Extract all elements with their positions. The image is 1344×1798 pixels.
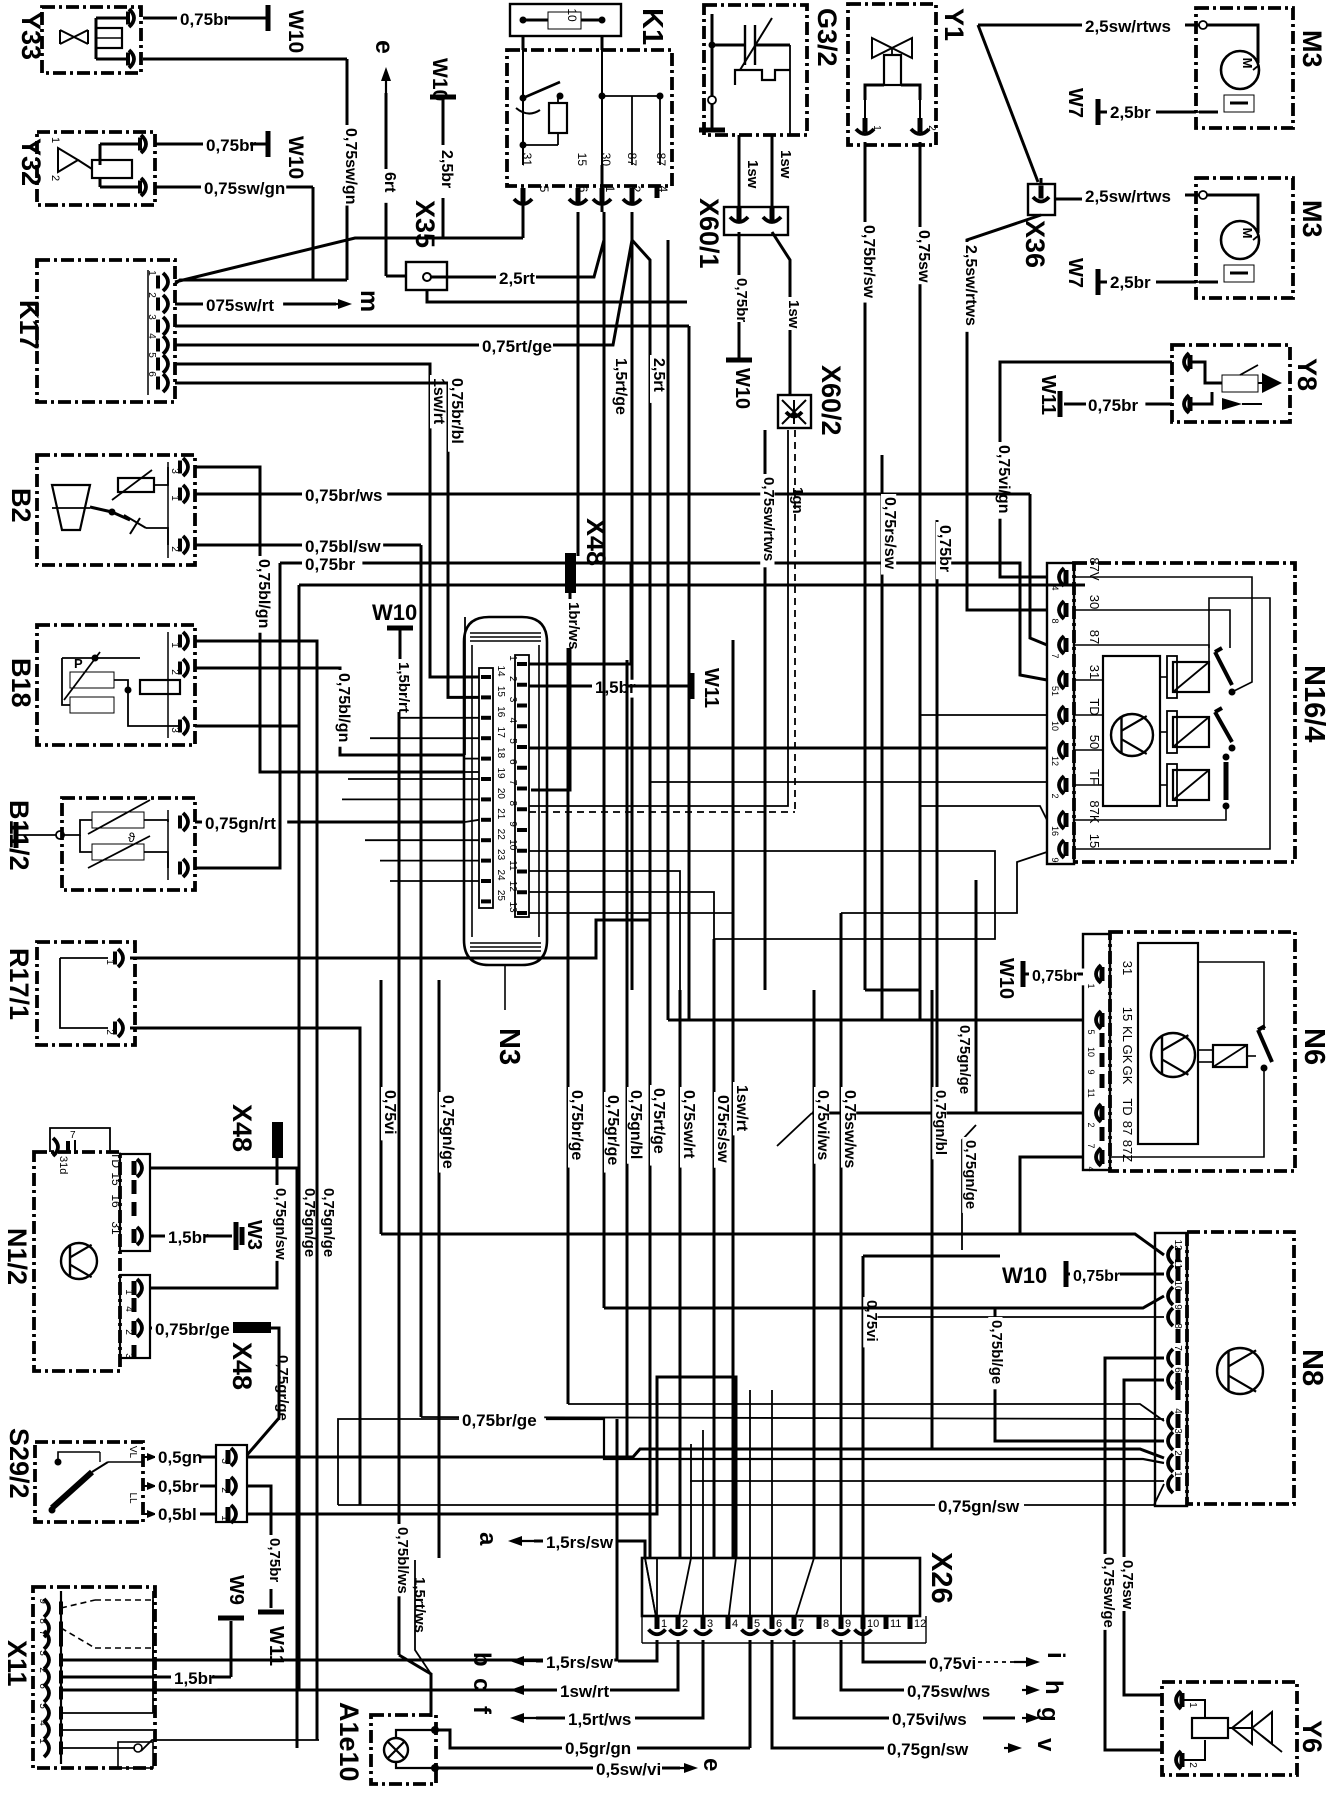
svg-text:1: 1 <box>169 642 180 648</box>
svg-text:0,75br: 0,75br <box>206 136 256 155</box>
svg-text:50: 50 <box>1087 735 1102 749</box>
svg-text:3: 3 <box>37 1650 48 1656</box>
svg-text:0,75vi/ws: 0,75vi/ws <box>814 1090 831 1160</box>
svg-text:0,75vi: 0,75vi <box>929 1654 976 1673</box>
svg-text:KL: KL <box>1120 1026 1135 1042</box>
svg-text:R17/1: R17/1 <box>4 948 34 1020</box>
svg-text:0,75gr/ge: 0,75gr/ge <box>274 1355 291 1421</box>
svg-text:S29/2: S29/2 <box>4 1428 34 1499</box>
svg-text:15: 15 <box>1087 834 1102 848</box>
svg-text:2: 2 <box>926 125 937 131</box>
svg-text:5: 5 <box>507 738 518 744</box>
svg-text:1: 1 <box>661 1618 667 1630</box>
svg-text:2: 2 <box>104 1029 115 1035</box>
svg-text:ϑ: ϑ <box>128 830 136 845</box>
svg-text:16: 16 <box>495 706 506 718</box>
svg-text:87: 87 <box>1087 630 1102 644</box>
svg-text:51: 51 <box>1050 686 1060 696</box>
svg-text:W7: W7 <box>1064 258 1086 288</box>
svg-text:0,75br/sw: 0,75br/sw <box>860 225 877 298</box>
svg-text:5: 5 <box>754 1618 760 1630</box>
svg-text:1,5br: 1,5br <box>168 1228 209 1247</box>
svg-text:1: 1 <box>1172 1471 1183 1477</box>
svg-text:0,75gr/ge: 0,75gr/ge <box>604 1095 621 1165</box>
svg-text:g: g <box>1036 1707 1063 1722</box>
svg-text:0,75gn/ge: 0,75gn/ge <box>962 1140 979 1209</box>
svg-text:5: 5 <box>37 1703 48 1709</box>
svg-text:B2: B2 <box>6 488 36 523</box>
svg-text:0,75sw/ge: 0,75sw/ge <box>1100 1557 1117 1628</box>
svg-text:19: 19 <box>495 767 506 779</box>
svg-text:21: 21 <box>495 808 506 820</box>
svg-text:10: 10 <box>565 8 579 22</box>
svg-text:7: 7 <box>1050 653 1060 658</box>
svg-text:1,5rt/ws: 1,5rt/ws <box>411 1577 428 1633</box>
svg-text:2: 2 <box>1172 1450 1183 1456</box>
svg-text:0,75gn/ge: 0,75gn/ge <box>320 1188 337 1257</box>
svg-text:1: 1 <box>104 959 115 965</box>
svg-text:2,5sw/rtws: 2,5sw/rtws <box>962 245 979 326</box>
svg-text:1: 1 <box>871 125 882 131</box>
svg-text:1sw: 1sw <box>744 160 761 189</box>
svg-text:10: 10 <box>867 1618 879 1630</box>
svg-text:X60/2: X60/2 <box>816 365 846 436</box>
svg-text:P: P <box>74 656 83 671</box>
svg-text:10: 10 <box>507 839 518 851</box>
svg-text:2: 2 <box>49 175 61 181</box>
svg-text:e: e <box>370 40 398 54</box>
svg-text:2: 2 <box>507 676 518 682</box>
svg-text:0,75br/ws: 0,75br/ws <box>305 486 383 505</box>
svg-text:87Z: 87Z <box>1120 1140 1135 1162</box>
svg-text:3: 3 <box>123 1353 134 1359</box>
svg-text:b: b <box>468 1652 495 1667</box>
svg-text:1: 1 <box>37 1738 48 1744</box>
svg-text:W11: W11 <box>1037 375 1059 415</box>
svg-text:0,5sw/vi: 0,5sw/vi <box>596 1760 661 1779</box>
svg-text:2: 2 <box>37 1667 48 1673</box>
svg-text:0,75bl/ws: 0,75bl/ws <box>394 1527 411 1594</box>
svg-text:3: 3 <box>169 468 180 474</box>
svg-text:h: h <box>1040 1680 1067 1695</box>
svg-text:1: 1 <box>49 137 61 143</box>
svg-text:6: 6 <box>1172 1367 1183 1373</box>
svg-text:M3: M3 <box>1297 30 1327 68</box>
svg-text:20: 20 <box>495 788 506 800</box>
svg-text:1: 1 <box>123 1289 134 1295</box>
svg-text:10: 10 <box>1086 1047 1096 1057</box>
svg-text:12: 12 <box>914 1618 926 1630</box>
svg-text:K1: K1 <box>636 8 668 45</box>
svg-text:1gn: 1gn <box>789 487 806 514</box>
svg-text:0,75br: 0,75br <box>180 10 230 29</box>
svg-text:X48: X48 <box>227 1104 257 1152</box>
svg-text:VL: VL <box>127 1446 138 1459</box>
svg-text:31: 31 <box>109 1221 123 1235</box>
svg-text:m: m <box>355 290 383 312</box>
svg-text:X48: X48 <box>227 1342 257 1390</box>
svg-text:7: 7 <box>798 1618 804 1630</box>
svg-text:17: 17 <box>495 727 506 739</box>
svg-text:0,75sw: 0,75sw <box>915 230 932 283</box>
svg-text:6: 6 <box>37 1683 48 1689</box>
svg-text:2,5sw/rtws: 2,5sw/rtws <box>1085 187 1171 206</box>
svg-text:5: 5 <box>1172 1380 1183 1386</box>
svg-text:15: 15 <box>575 153 589 167</box>
svg-text:X11: X11 <box>2 1640 32 1687</box>
svg-text:2: 2 <box>682 1618 688 1630</box>
svg-text:1sw/rt: 1sw/rt <box>560 1682 609 1701</box>
svg-text:0,75br/bl: 0,75br/bl <box>448 378 465 444</box>
svg-text:4: 4 <box>507 717 518 723</box>
svg-text:1,5rt/ge: 1,5rt/ge <box>612 358 629 415</box>
svg-text:G3/2: G3/2 <box>812 8 842 67</box>
svg-text:2: 2 <box>123 1329 134 1335</box>
svg-text:v: v <box>1032 1738 1059 1752</box>
svg-text:1sw: 1sw <box>785 300 802 329</box>
svg-text:0,75sw/ws: 0,75sw/ws <box>907 1682 990 1701</box>
svg-text:N16/4: N16/4 <box>1298 665 1330 742</box>
svg-text:7: 7 <box>1086 1143 1096 1148</box>
svg-text:11: 11 <box>890 1618 901 1630</box>
svg-text:W9: W9 <box>225 1575 247 1605</box>
svg-text:W10: W10 <box>284 136 307 179</box>
svg-text:c: c <box>468 1678 495 1691</box>
svg-text:8: 8 <box>507 800 518 806</box>
svg-text:7: 7 <box>37 1630 48 1636</box>
svg-text:N6: N6 <box>1298 1028 1330 1065</box>
svg-text:f: f <box>468 1706 495 1715</box>
svg-text:6rt: 6rt <box>381 172 398 193</box>
svg-text:9: 9 <box>1086 1069 1096 1074</box>
svg-text:0,75sw/gn: 0,75sw/gn <box>204 179 285 198</box>
svg-text:0,75sw: 0,75sw <box>1119 1560 1136 1610</box>
svg-text:1: 1 <box>169 495 180 501</box>
svg-text:31: 31 <box>1120 961 1135 975</box>
svg-text:3: 3 <box>507 697 518 703</box>
svg-text:1sw: 1sw <box>777 150 794 179</box>
svg-text:1,5rs/sw: 1,5rs/sw <box>546 1533 614 1552</box>
svg-text:Y32: Y32 <box>16 138 46 186</box>
svg-text:0,75sw/rt: 0,75sw/rt <box>680 1090 697 1159</box>
svg-text:9: 9 <box>845 1618 851 1630</box>
svg-text:TD: TD <box>1120 1098 1135 1115</box>
svg-text:5: 5 <box>537 186 551 193</box>
svg-text:14: 14 <box>495 665 506 677</box>
svg-text:9: 9 <box>1172 1304 1183 1310</box>
svg-text:N1/2: N1/2 <box>2 1228 32 1285</box>
svg-text:A1e10: A1e10 <box>334 1702 364 1782</box>
svg-text:0,75br: 0,75br <box>733 278 750 322</box>
svg-text:a: a <box>474 1532 501 1546</box>
svg-text:W3: W3 <box>243 1220 265 1250</box>
svg-text:10: 10 <box>1050 721 1060 731</box>
svg-text:8: 8 <box>37 1618 48 1624</box>
svg-text:31: 31 <box>1087 665 1102 679</box>
svg-text:W10: W10 <box>731 368 753 409</box>
svg-text:Y33: Y33 <box>16 12 46 60</box>
svg-text:i: i <box>1042 1652 1069 1659</box>
svg-text:23: 23 <box>495 849 506 861</box>
svg-text:4: 4 <box>1086 1166 1096 1171</box>
svg-text:9: 9 <box>37 1598 48 1604</box>
svg-text:25: 25 <box>495 890 506 902</box>
svg-text:5: 5 <box>1086 1029 1096 1034</box>
svg-text:TD: TD <box>1087 698 1102 715</box>
svg-text:2: 2 <box>219 1487 230 1493</box>
svg-text:9: 9 <box>1050 857 1060 862</box>
svg-text:87: 87 <box>1120 1121 1135 1135</box>
svg-text:4: 4 <box>37 1720 48 1726</box>
svg-text:0,75sw/rtws: 0,75sw/rtws <box>760 477 777 561</box>
svg-text:1sw/rt: 1sw/rt <box>733 1085 750 1132</box>
svg-text:2,5rt: 2,5rt <box>650 358 667 392</box>
svg-text:GK: GK <box>1120 1045 1135 1064</box>
svg-text:0,75br: 0,75br <box>1032 968 1079 985</box>
svg-text:075rs/sw: 075rs/sw <box>714 1095 731 1163</box>
svg-text:3: 3 <box>169 727 180 733</box>
svg-text:W10: W10 <box>995 958 1017 999</box>
svg-text:2: 2 <box>169 546 180 552</box>
svg-text:B18: B18 <box>6 658 36 708</box>
svg-text:GK: GK <box>1120 1066 1135 1085</box>
svg-text:0,5gr/gn: 0,5gr/gn <box>565 1739 631 1758</box>
svg-text:0,75gn/bl: 0,75gn/bl <box>627 1090 644 1159</box>
svg-text:W7: W7 <box>1064 88 1086 118</box>
svg-text:22: 22 <box>495 829 506 841</box>
svg-text:11: 11 <box>1086 1088 1096 1097</box>
svg-text:0,75br: 0,75br <box>1088 396 1138 415</box>
svg-text:0,75gn/ge: 0,75gn/ge <box>301 1188 318 1257</box>
svg-text:8: 8 <box>1172 1323 1183 1329</box>
svg-text:0,75vi: 0,75vi <box>863 1300 880 1342</box>
svg-text:N8: N8 <box>1296 1349 1328 1386</box>
svg-text:1: 1 <box>603 186 617 193</box>
svg-text:0,75br: 0,75br <box>936 525 953 572</box>
svg-text:10: 10 <box>1172 1280 1183 1292</box>
svg-text:7: 7 <box>507 780 518 786</box>
svg-text:4: 4 <box>123 1306 134 1312</box>
svg-text:0,75br: 0,75br <box>1073 1268 1120 1285</box>
svg-text:6: 6 <box>507 759 518 765</box>
svg-text:11: 11 <box>1172 1259 1183 1270</box>
svg-text:30: 30 <box>599 153 613 167</box>
svg-text:7: 7 <box>70 1130 76 1141</box>
svg-text:2,5rt: 2,5rt <box>499 269 535 288</box>
svg-text:0,75gn/ge: 0,75gn/ge <box>956 1025 973 1094</box>
svg-text:W11: W11 <box>700 668 722 708</box>
svg-text:Y8: Y8 <box>1292 358 1322 391</box>
svg-text:LL: LL <box>127 1492 138 1504</box>
svg-text:6: 6 <box>776 1618 782 1630</box>
svg-text:0,75gn/bl: 0,75gn/bl <box>932 1090 949 1155</box>
svg-text:3: 3 <box>707 1618 713 1630</box>
svg-text:0,75bl/ge: 0,75bl/ge <box>988 1320 1005 1384</box>
svg-text:4: 4 <box>1172 1408 1183 1414</box>
svg-text:2: 2 <box>1187 1762 1198 1768</box>
svg-text:0,75sw/ws: 0,75sw/ws <box>841 1090 858 1168</box>
svg-text:7: 7 <box>1172 1345 1183 1351</box>
svg-text:31d: 31d <box>57 1156 69 1174</box>
svg-text:12: 12 <box>507 881 518 893</box>
svg-text:0,75bl/gn: 0,75bl/gn <box>335 673 352 742</box>
svg-text:8: 8 <box>1050 618 1060 623</box>
svg-text:1: 1 <box>507 655 518 661</box>
svg-text:0,75br/ge: 0,75br/ge <box>568 1090 585 1160</box>
svg-text:16: 16 <box>109 1194 123 1208</box>
svg-text:0,75rt/ge: 0,75rt/ge <box>482 337 552 356</box>
svg-text:W10: W10 <box>372 600 417 625</box>
svg-text:X48: X48 <box>581 518 611 566</box>
svg-text:2: 2 <box>1086 1122 1096 1127</box>
svg-text:0,75gn/ge: 0,75gn/ge <box>439 1095 456 1169</box>
svg-text:0,75gn/sw: 0,75gn/sw <box>887 1740 969 1759</box>
svg-text:0,75rs/sw: 0,75rs/sw <box>881 497 898 570</box>
svg-text:M: M <box>1240 58 1255 69</box>
svg-text:0,75br: 0,75br <box>266 1538 283 1582</box>
svg-text:87: 87 <box>625 153 639 167</box>
svg-text:1: 1 <box>219 1515 230 1521</box>
svg-text:15: 15 <box>495 686 506 698</box>
svg-text:TD: TD <box>109 1152 123 1168</box>
svg-text:TF: TF <box>1087 769 1102 785</box>
svg-text:W10: W10 <box>1002 1263 1047 1288</box>
svg-text:0,75vi/gn: 0,75vi/gn <box>995 445 1012 513</box>
svg-text:2,5br: 2,5br <box>438 150 455 188</box>
svg-text:2: 2 <box>169 669 180 675</box>
svg-text:0,75gn/sw: 0,75gn/sw <box>938 1497 1020 1516</box>
svg-text:Y6: Y6 <box>1297 1720 1327 1753</box>
svg-text:1sw/rt: 1sw/rt <box>430 378 447 425</box>
svg-text:0,75gn/rt: 0,75gn/rt <box>205 814 276 833</box>
svg-text:0,75bl/gn: 0,75bl/gn <box>255 559 272 628</box>
svg-text:2,5br: 2,5br <box>1110 103 1151 122</box>
svg-text:N3: N3 <box>493 1028 525 1065</box>
svg-text:12: 12 <box>1172 1239 1183 1251</box>
svg-text:87: 87 <box>654 153 668 167</box>
svg-text:24: 24 <box>495 869 506 881</box>
svg-text:15: 15 <box>109 1172 123 1186</box>
svg-text:3: 3 <box>1172 1428 1183 1434</box>
svg-text:075sw/rt: 075sw/rt <box>206 296 274 315</box>
svg-text:0,5bl: 0,5bl <box>158 1505 197 1524</box>
svg-text:1br/ws: 1br/ws <box>565 602 582 650</box>
svg-text:13: 13 <box>507 901 518 913</box>
svg-text:0,75br/ge: 0,75br/ge <box>462 1411 537 1430</box>
svg-text:X36: X36 <box>1020 220 1050 268</box>
svg-text:1,5rs/sw: 1,5rs/sw <box>546 1653 614 1672</box>
svg-text:0,75rt/ge: 0,75rt/ge <box>650 1088 667 1154</box>
svg-text:0,75br: 0,75br <box>305 555 355 574</box>
svg-text:9: 9 <box>507 821 518 827</box>
svg-text:1: 1 <box>1086 983 1096 988</box>
svg-text:W10: W10 <box>284 10 307 53</box>
svg-text:0,75vi: 0,75vi <box>381 1090 398 1134</box>
svg-text:16: 16 <box>1050 826 1060 836</box>
svg-text:0,75vi/ws: 0,75vi/ws <box>892 1710 967 1729</box>
svg-text:18: 18 <box>495 747 506 759</box>
svg-text:12: 12 <box>1050 756 1060 766</box>
svg-text:0,5br: 0,5br <box>158 1477 199 1496</box>
svg-text:0,75sw/gn: 0,75sw/gn <box>342 128 359 204</box>
svg-text:1: 1 <box>1187 1702 1198 1708</box>
svg-text:30: 30 <box>1087 595 1102 609</box>
svg-text:4: 4 <box>732 1618 738 1630</box>
svg-text:e: e <box>698 1758 725 1771</box>
svg-text:0,75gn/sw: 0,75gn/sw <box>272 1188 289 1260</box>
svg-text:Y1: Y1 <box>939 8 969 41</box>
svg-text:0,75br/ge: 0,75br/ge <box>155 1320 230 1339</box>
svg-text:K17: K17 <box>14 300 44 350</box>
svg-text:2: 2 <box>1050 793 1060 798</box>
svg-text:0,5gn: 0,5gn <box>158 1448 202 1467</box>
svg-text:8: 8 <box>823 1618 829 1630</box>
svg-text:11: 11 <box>507 860 518 871</box>
svg-text:X26: X26 <box>925 1552 957 1604</box>
svg-text:15: 15 <box>1120 1007 1135 1021</box>
svg-text:2,5sw/rtws: 2,5sw/rtws <box>1085 17 1171 36</box>
svg-text:4: 4 <box>1050 585 1060 590</box>
svg-text:1,5rt/ws: 1,5rt/ws <box>568 1710 631 1729</box>
svg-text:1,5br: 1,5br <box>174 1669 215 1688</box>
svg-text:M: M <box>1240 228 1255 239</box>
svg-text:3: 3 <box>219 1458 230 1464</box>
svg-text:1,5br/rt: 1,5br/rt <box>395 662 412 713</box>
svg-text:31: 31 <box>520 153 534 167</box>
svg-text:0,75bl/sw: 0,75bl/sw <box>305 537 381 556</box>
svg-text:2,5br: 2,5br <box>1110 273 1151 292</box>
svg-text:M3: M3 <box>1297 200 1327 238</box>
svg-text:X35: X35 <box>410 200 440 248</box>
svg-text:X60/1: X60/1 <box>694 198 724 269</box>
